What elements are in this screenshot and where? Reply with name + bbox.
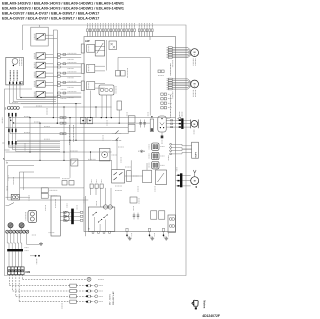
- svg-text:M: M: [194, 181, 196, 183]
- svg-text:EBLA09-14D3V3 / EBLA09-14DV3 /: EBLA09-14D3V3 / EBLA09-14DV3 / EBLA09-14…: [2, 2, 124, 6]
- svg-text:M: M: [194, 124, 196, 126]
- svg-text:X1M: X1M: [25, 271, 30, 274]
- svg-text:3~: 3~: [194, 86, 196, 88]
- svg-text:3N~, 50 Hz: 3N~, 50 Hz: [110, 294, 112, 305]
- svg-text:3~: 3~: [194, 54, 196, 56]
- svg-text:SWPS: SWPS: [195, 151, 197, 158]
- svg-text:EDLA-D3V37 / EDLA-DV37 / EDLA-: EDLA-D3V37 / EDLA-DV37 / EDLA-D3W17 / ED…: [2, 17, 99, 21]
- svg-text:4D124072F: 4D124072F: [202, 314, 220, 318]
- svg-text:EBLA-D3V37 / EBLA-DV37 / EBLA-: EBLA-D3V37 / EBLA-DV37 / EBLA-D3W17 / EB…: [2, 12, 99, 16]
- svg-text:EDLA09-14D3V3 / EDLA09-14DV3 /: EDLA09-14D3V3 / EDLA09-14DV3 / EDLA09-14…: [2, 7, 124, 11]
- svg-text:Notes: Notes: [202, 300, 206, 308]
- svg-text:A1P: A1P: [85, 40, 90, 43]
- svg-text:380-415 V AC: 380-415 V AC: [112, 291, 115, 305]
